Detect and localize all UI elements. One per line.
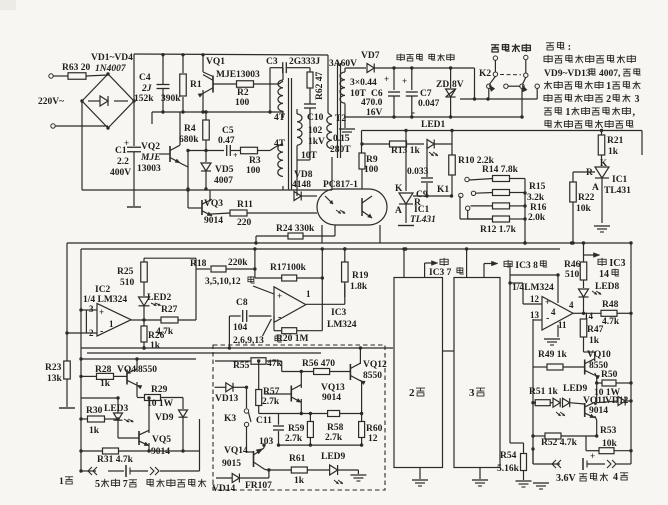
svg-text:4: 4 [551,307,556,317]
svg-text:TL431: TL431 [410,215,436,225]
svg-text:IC3 8: IC3 8 [515,261,538,271]
svg-text:K1: K1 [437,185,449,195]
svg-text:K3: K3 [224,414,236,424]
svg-text:R22: R22 [578,193,595,203]
svg-text:T2: T2 [335,114,346,124]
svg-text:K: K [395,184,403,194]
svg-text:ZD: ZD [436,80,449,90]
svg-text:R51 1k: R51 1k [529,387,558,397]
svg-text:R53: R53 [600,426,617,436]
svg-text:A: A [592,183,599,193]
svg-text:100: 100 [364,165,379,175]
svg-text:R59: R59 [288,424,305,434]
svg-text:VQ3: VQ3 [204,199,223,209]
svg-text:MJE13003: MJE13003 [216,70,260,80]
svg-text:C5: C5 [222,126,234,136]
svg-text:R50: R50 [601,370,618,380]
svg-text:12: 12 [368,434,378,444]
svg-text:100: 100 [235,98,250,108]
svg-text:5.16k: 5.16k [497,464,520,474]
svg-text:C9: C9 [416,190,428,200]
svg-text:VQ11: VQ11 [583,396,606,406]
svg-text:R11: R11 [237,200,253,210]
svg-text:VD14: VD14 [212,484,235,494]
svg-text:2.7k: 2.7k [285,434,303,444]
svg-text:VD9~VD13: VD9~VD13 [544,69,591,79]
svg-text:152k: 152k [134,94,154,104]
svg-text:R28: R28 [95,365,112,375]
svg-text:R49 1k: R49 1k [538,350,567,360]
svg-text:13: 13 [530,310,540,320]
svg-text:2.7k: 2.7k [325,433,343,443]
svg-text:R12 1.7k: R12 1.7k [480,225,517,235]
svg-text:R54: R54 [500,451,517,461]
svg-text:R16: R16 [530,203,547,213]
svg-text:MJE: MJE [140,153,161,163]
svg-text:2: 2 [606,94,611,105]
svg-text:2: 2 [409,387,415,399]
svg-text:9014: 9014 [151,447,170,457]
svg-text:IC2: IC2 [95,285,111,295]
svg-text:3: 3 [469,387,475,399]
svg-text:1: 1 [606,81,611,92]
svg-text:R21: R21 [607,136,624,146]
svg-text:IC1: IC1 [414,205,430,215]
svg-text:1: 1 [59,477,64,487]
svg-text:7: 7 [123,479,128,490]
svg-text:100: 100 [246,166,261,176]
svg-text:VD9: VD9 [155,413,174,423]
svg-text:LED3: LED3 [104,404,129,414]
svg-text:10 1W: 10 1W [147,399,174,409]
svg-text:510: 510 [120,278,135,288]
svg-text:+: + [99,307,104,317]
svg-text:R46: R46 [564,260,581,270]
svg-text:13k: 13k [47,374,63,384]
svg-text:104: 104 [233,323,248,333]
svg-text:11: 11 [558,320,567,330]
svg-text:1k: 1k [100,379,111,389]
svg-text:1k: 1k [89,426,100,436]
svg-text:VD13: VD13 [215,394,238,404]
svg-text:LED9: LED9 [321,452,346,462]
svg-text:R25: R25 [117,267,134,277]
svg-text:R26: R26 [148,331,165,341]
svg-text:3,5,10,12: 3,5,10,12 [205,277,241,287]
svg-text:4T: 4T [274,113,286,123]
svg-text:C3: C3 [266,57,278,67]
svg-text:510: 510 [565,270,580,280]
svg-text:220: 220 [237,218,252,228]
svg-text:PC817-1: PC817-1 [323,180,358,190]
svg-text:IC1: IC1 [612,175,628,185]
svg-text:3.6V: 3.6V [556,473,577,484]
svg-text:4T: 4T [274,139,286,149]
svg-text:1kV: 1kV [308,137,325,147]
svg-text:+: + [590,451,595,461]
svg-text:R9: R9 [366,155,378,165]
svg-text:FR107: FR107 [245,481,272,491]
svg-text:12: 12 [530,294,540,304]
svg-text:-: - [278,312,281,323]
svg-text:R17100k: R17100k [270,263,307,273]
svg-text:9014: 9014 [322,393,341,403]
svg-text:LED9: LED9 [563,384,588,394]
svg-text:9014: 9014 [589,406,608,416]
svg-text:1/4LM324: 1/4LM324 [512,283,554,293]
svg-text:C1: C1 [115,146,127,156]
svg-text:3: 3 [635,94,640,105]
svg-text:R31 4.7k: R31 4.7k [97,455,134,465]
svg-text:R: R [586,168,593,178]
svg-text:R63 20: R63 20 [62,63,90,73]
svg-text:0.033: 0.033 [407,167,429,177]
svg-text:R61: R61 [289,454,306,464]
svg-text:R1: R1 [190,80,202,90]
svg-text:4007: 4007 [214,176,233,186]
svg-text:103: 103 [259,437,274,447]
svg-text:4007,: 4007, [599,69,621,79]
svg-text:R2: R2 [237,88,249,98]
svg-text:VQ5: VQ5 [152,435,171,445]
svg-text:C10: C10 [307,113,324,123]
svg-text:+: + [277,291,282,301]
svg-text:2J: 2J [141,84,152,94]
svg-text:R60: R60 [366,424,383,434]
svg-text:13003: 13003 [137,164,161,174]
svg-text:LED2: LED2 [147,293,172,303]
svg-text:R56 470: R56 470 [302,359,335,369]
svg-text:+: + [384,74,389,84]
svg-text:R58: R58 [327,423,344,433]
svg-text:-: - [546,313,549,324]
svg-text:4: 4 [569,300,574,310]
svg-text:390k: 390k [161,94,181,104]
svg-text:R18: R18 [190,259,207,269]
svg-text:2G333J: 2G333J [289,57,320,67]
svg-text:VD1~VD4: VD1~VD4 [91,53,133,63]
svg-text:VQ1: VQ1 [206,57,225,67]
svg-text:LM324: LM324 [327,320,357,330]
svg-text:R30: R30 [86,406,103,416]
svg-text:+: + [402,76,407,86]
svg-text:VQ14: VQ14 [224,446,248,456]
svg-text:5: 5 [95,479,100,490]
svg-text:VQ12: VQ12 [363,360,387,370]
svg-text:LED8: LED8 [595,282,620,292]
svg-text:8550: 8550 [138,365,157,375]
svg-text:R52 4.7k: R52 4.7k [541,438,578,448]
svg-text:1k: 1k [608,147,619,157]
svg-text:3A60V: 3A60V [329,59,357,69]
svg-text::: : [568,42,571,53]
svg-text:VQ10: VQ10 [587,350,611,360]
svg-text:9014: 9014 [204,216,223,226]
svg-text:R57: R57 [263,387,280,397]
svg-text:3×0.44: 3×0.44 [350,78,377,88]
svg-text:400V: 400V [110,168,131,178]
svg-text:470.0: 470.0 [361,98,383,108]
svg-text:220V~: 220V~ [38,97,64,107]
svg-text:VD7: VD7 [361,51,380,61]
svg-text:220k: 220k [228,258,248,268]
svg-text:R48: R48 [602,300,619,310]
svg-text:8V: 8V [452,80,464,90]
svg-text:4148: 4148 [292,180,311,190]
svg-text:R4: R4 [184,124,196,134]
svg-text:K2: K2 [479,69,491,79]
svg-text:1N4007: 1N4007 [95,64,127,74]
svg-text:1k: 1k [589,336,600,346]
svg-text:1: 1 [306,289,311,299]
svg-text:14: 14 [599,269,609,280]
svg-text:C8: C8 [236,298,248,308]
svg-text:-: - [100,326,103,337]
svg-text:R19: R19 [352,271,369,281]
svg-text:R62 47: R62 47 [315,72,325,100]
svg-text:1k: 1k [294,476,305,486]
svg-text:0.15: 0.15 [333,134,350,144]
svg-text:IC3: IC3 [331,308,347,318]
svg-text:4: 4 [613,472,618,483]
svg-text:A: A [395,206,402,216]
svg-text:9015: 9015 [222,459,241,469]
svg-text:VQ13: VQ13 [321,383,345,393]
svg-text:1: 1 [109,319,114,329]
svg-text:VD5: VD5 [215,165,234,175]
svg-text:R29: R29 [151,385,168,395]
svg-text:K: K [600,158,607,168]
svg-text:TL431: TL431 [604,186,631,196]
svg-text:R55: R55 [233,361,250,371]
svg-text:+: + [233,151,238,160]
svg-text:C7: C7 [420,89,432,99]
svg-text:10k: 10k [602,439,618,449]
svg-text:R14 7.8k: R14 7.8k [482,165,519,175]
svg-text:10k: 10k [576,204,592,214]
svg-text:R23: R23 [45,363,62,373]
svg-text:C4: C4 [139,73,151,83]
svg-text:280T: 280T [330,145,351,155]
svg-text:1.8k: 1.8k [350,282,368,292]
svg-text:3.2k: 3.2k [527,193,545,203]
svg-text:R15: R15 [529,182,546,192]
svg-text:1k: 1k [150,341,161,351]
svg-text:R27: R27 [161,305,178,315]
svg-text:+: + [545,297,550,307]
svg-text:1: 1 [565,107,570,118]
svg-text:2.7k: 2.7k [262,397,280,407]
svg-text:0.047: 0.047 [418,99,440,109]
svg-text:VQ2: VQ2 [141,142,160,152]
svg-text:102: 102 [308,126,323,136]
svg-text:8550: 8550 [363,371,382,381]
svg-text:47k: 47k [267,359,283,369]
svg-text:IC3: IC3 [609,258,625,269]
svg-text:0.47: 0.47 [218,136,235,146]
svg-text:3: 3 [89,304,94,314]
svg-text:R3: R3 [249,156,261,166]
svg-text:VD8: VD8 [294,170,313,180]
svg-text:2.0k: 2.0k [528,213,546,223]
svg-text:2.2: 2.2 [117,157,129,167]
svg-text:4.7k: 4.7k [602,317,620,327]
svg-text:C11: C11 [256,416,272,426]
svg-text:LED1: LED1 [421,120,446,130]
svg-text:IC3 7: IC3 7 [429,268,452,278]
svg-text:680k: 680k [179,135,199,145]
